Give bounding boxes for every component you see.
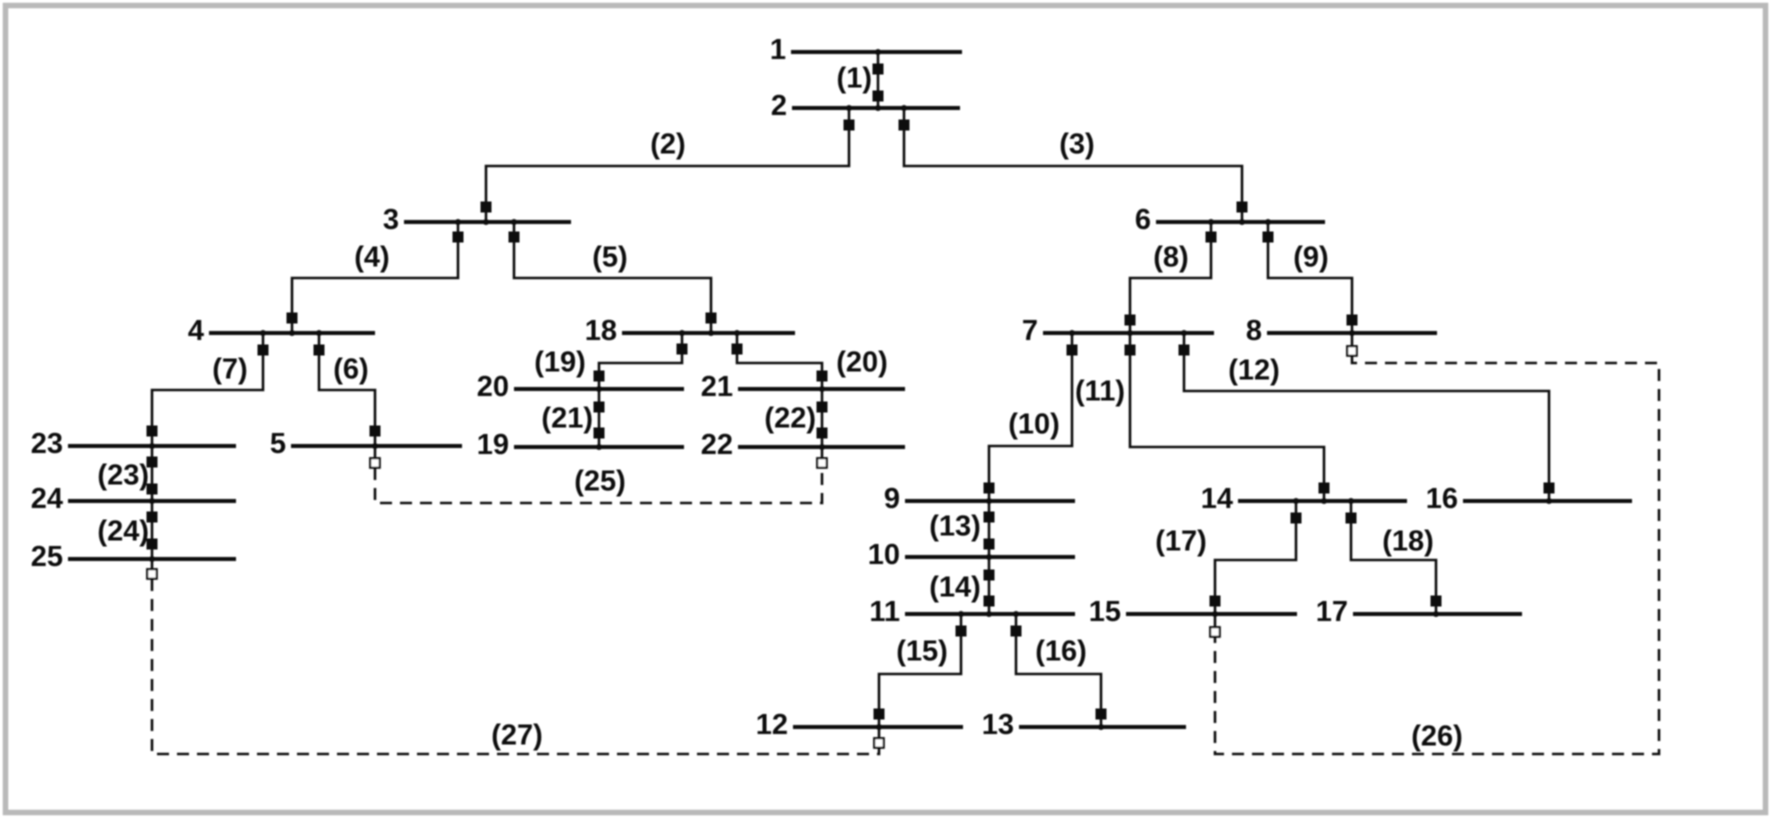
branch (15) with switches, bus 11 to bus 12 (874, 611, 967, 730)
svg-text:(18): (18) (1382, 525, 1434, 557)
svg-text:19: 19 (477, 429, 509, 461)
tie branch (27) dashed, open switches, bus 25 to bus 12 (147, 559, 884, 754)
branch (18) with switches, bus 14 to bus 17 (1346, 498, 1442, 617)
svg-text:6: 6 (1135, 204, 1151, 236)
svg-text:(13): (13) (929, 510, 981, 542)
svg-text:12: 12 (756, 709, 788, 741)
branch (1) with switches, bus 1 to bus 2 (837, 49, 884, 111)
bus 10 (868, 539, 1075, 571)
svg-text:(6): (6) (333, 353, 368, 385)
branch (22) with switches, bus 21 to bus 22 (764, 389, 827, 450)
svg-text:16: 16 (1426, 483, 1458, 515)
branch (21) with switches, bus 20 to bus 19 (541, 389, 604, 450)
bus 6 (1135, 204, 1325, 236)
branch (11) with switches, bus 7 to bus 14 (1075, 333, 1329, 504)
svg-text:10: 10 (868, 539, 900, 571)
svg-text:11: 11 (869, 596, 900, 628)
bus 4 (188, 315, 375, 347)
bus 1 (770, 34, 962, 66)
svg-text:(15): (15) (896, 635, 948, 667)
svg-text:(8): (8) (1153, 241, 1188, 273)
bus 15 (1089, 596, 1297, 628)
branch (20) with switches, bus 18 to bus 21 (732, 330, 888, 392)
branch (8) with switches, bus 6 to bus 7 (1125, 219, 1217, 336)
svg-text:13: 13 (982, 709, 1014, 741)
bus 12 (756, 709, 963, 741)
svg-text:7: 7 (1022, 315, 1038, 347)
svg-text:5: 5 (270, 428, 286, 460)
bus 18 (585, 315, 795, 347)
branch (2) with switches, bus 2 to bus 3 (481, 105, 855, 225)
branch (5) with switches, bus 3 to bus 18 (509, 219, 717, 336)
svg-text:25: 25 (31, 541, 63, 573)
bus 16 (1426, 483, 1632, 515)
bus 19 (477, 429, 684, 461)
branch (12) with switches, bus 7 to bus 16 (1179, 330, 1555, 504)
bus 22 (701, 429, 905, 461)
svg-text:(23): (23) (97, 459, 149, 491)
tie branch (26) dashed, open switches, bus 8 to bus 15 (1210, 333, 1659, 754)
svg-text:(27): (27) (491, 719, 543, 751)
svg-text:(7): (7) (212, 353, 247, 385)
branch (23) with switches, bus 23 to bus 24 (97, 446, 157, 504)
svg-text:(2): (2) (650, 128, 685, 160)
svg-text:(19): (19) (534, 346, 586, 378)
svg-text:24: 24 (31, 483, 63, 515)
svg-text:1: 1 (770, 34, 786, 66)
svg-text:(24): (24) (97, 515, 149, 547)
branch (7) with switches, bus 4 to bus 23 (147, 330, 269, 449)
branch (24) with switches, bus 24 to bus 25 (97, 501, 157, 562)
svg-text:(16): (16) (1035, 635, 1087, 667)
bus 24 (31, 483, 236, 515)
svg-text:(5): (5) (592, 241, 627, 273)
svg-text:17: 17 (1316, 596, 1348, 628)
tie branch (25) dashed, open switches, bus 5 to bus 22 (370, 446, 827, 503)
svg-text:(20): (20) (836, 346, 888, 378)
bus 23 (31, 428, 236, 460)
svg-text:(26): (26) (1411, 720, 1463, 752)
svg-text:9: 9 (884, 483, 900, 515)
bus 2 (771, 90, 960, 122)
svg-text:4: 4 (188, 315, 204, 347)
bus 9 (884, 483, 1075, 515)
svg-text:14: 14 (1201, 483, 1233, 515)
bus 25 (31, 541, 236, 573)
svg-text:(21): (21) (541, 402, 593, 434)
svg-text:23: 23 (31, 428, 63, 460)
branch (19) with switches, bus 18 to bus 20 (534, 330, 687, 392)
branch (16) with switches, bus 11 to bus 13 (1011, 611, 1107, 730)
bus 5 (270, 428, 462, 460)
bus 3 (383, 204, 571, 236)
svg-text:(1): (1) (837, 62, 872, 94)
bus 17 (1316, 596, 1522, 628)
svg-text:(25): (25) (574, 465, 626, 497)
bus 8 (1246, 315, 1437, 347)
svg-text:(22): (22) (764, 402, 816, 434)
svg-text:(11): (11) (1075, 375, 1125, 407)
svg-text:22: 22 (701, 429, 733, 461)
svg-text:21: 21 (701, 371, 733, 403)
svg-text:20: 20 (477, 371, 509, 403)
svg-text:18: 18 (585, 315, 617, 347)
svg-text:(9): (9) (1293, 241, 1328, 273)
svg-text:(17): (17) (1155, 525, 1207, 557)
branch (10) with switches, bus 7 to bus 9 (984, 330, 1078, 504)
bus 11 (869, 596, 1075, 628)
branch (14) with switches, bus 10 to bus 11 (929, 557, 994, 617)
branch (4) with switches, bus 3 to bus 4 (287, 219, 464, 336)
svg-text:15: 15 (1089, 596, 1121, 628)
branch (17) with switches, bus 14 to bus 15 (1155, 498, 1301, 617)
branch (3) with switches, bus 2 to bus 6 (899, 105, 1248, 225)
branch (6) with switches, bus 4 to bus 5 (314, 330, 381, 449)
svg-text:2: 2 (771, 90, 787, 122)
bus 21 (701, 371, 905, 403)
svg-text:8: 8 (1246, 315, 1262, 347)
branch (9) with switches, bus 6 to bus 8 (1263, 219, 1358, 336)
svg-text:(3): (3) (1059, 128, 1094, 160)
bus 7 (1022, 315, 1214, 347)
bus 14 (1201, 483, 1407, 515)
svg-text:3: 3 (383, 204, 399, 236)
bus 13 (982, 709, 1186, 741)
bus 20 (477, 371, 684, 403)
branch (13) with switches, bus 9 to bus 10 (929, 501, 994, 560)
svg-text:(4): (4) (354, 241, 389, 273)
svg-text:(14): (14) (929, 571, 981, 603)
svg-text:(10): (10) (1008, 408, 1060, 440)
svg-text:(12): (12) (1228, 354, 1280, 386)
